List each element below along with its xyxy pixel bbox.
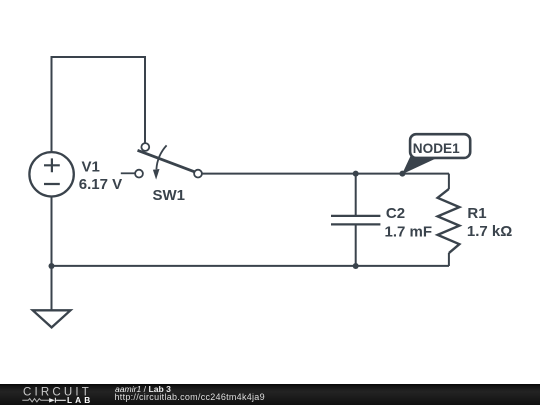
svg-text:R1: R1 xyxy=(467,205,486,222)
svg-text:NODE1: NODE1 xyxy=(413,141,460,156)
svg-text:1.7 kΩ: 1.7 kΩ xyxy=(467,223,512,240)
svg-text:LAB: LAB xyxy=(67,395,93,405)
svg-text:C2: C2 xyxy=(386,205,405,222)
svg-text:6.17 V: 6.17 V xyxy=(79,176,122,193)
svg-text:V1: V1 xyxy=(82,158,100,175)
svg-text:SW1: SW1 xyxy=(153,187,186,204)
svg-text:1.7 mF: 1.7 mF xyxy=(385,223,433,240)
